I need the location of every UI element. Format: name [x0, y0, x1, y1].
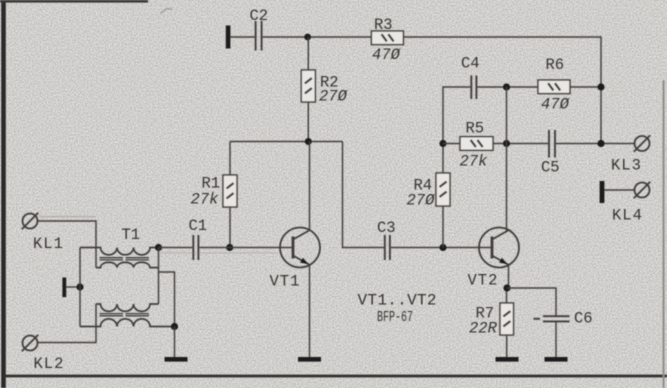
- wire R6 to right bus: [570, 86, 601, 88]
- transformer T1 winding 1a: [80, 248, 159, 255]
- transformer T1 winding 1b: [96, 262, 159, 267]
- node R5/collector: [503, 140, 510, 147]
- svg-text:C6: C6: [574, 310, 593, 328]
- capacitor C1: [193, 235, 198, 260]
- svg-text:R5: R5: [466, 120, 485, 138]
- wire VT2 collector riser: [506, 87, 508, 231]
- svg-text:47Ø: 47Ø: [372, 46, 402, 64]
- svg-text:BFP-67: BFP-67: [377, 309, 413, 326]
- svg-text:KL2: KL2: [34, 355, 65, 373]
- terminal KL2: [22, 335, 38, 351]
- svg-text:R3: R3: [374, 16, 393, 34]
- ground VT1 emitter: [298, 357, 321, 362]
- wire bar to C2: [230, 36, 254, 38]
- wire T1 right to ground branch: [159, 272, 175, 327]
- transformer T1 winding 2a: [96, 304, 159, 311]
- capacitor C6: [534, 316, 570, 321]
- terminal bar KL4 stub: [600, 181, 605, 203]
- node T1 output: [155, 244, 162, 251]
- wire C2 to R3: [263, 36, 371, 38]
- resistor R3: [371, 31, 403, 45]
- wire VT1 emitter to ground: [309, 265, 311, 357]
- terminal KL1: [22, 213, 38, 229]
- svg-text:KL1: KL1: [33, 235, 64, 253]
- node R2 bottom: [305, 138, 312, 145]
- svg-text:R6: R6: [546, 56, 565, 74]
- wire T1 left bus (1a left to 2b left): [79, 248, 81, 327]
- node C2/R2/R3: [304, 34, 311, 41]
- transistor VT2: [479, 228, 519, 268]
- wire chassis bar to node: [66, 286, 80, 288]
- transformer T1 core (top pair): [100, 258, 150, 260]
- wire R3 to top-right corner, down to KL3 node: [403, 37, 601, 144]
- node R1 / base VT1: [226, 244, 233, 251]
- svg-text:VT2: VT2: [468, 272, 499, 290]
- transformer T1 core (bottom pair): [100, 314, 150, 316]
- wire emitter node to C6: [507, 288, 556, 316]
- ground under T1: [165, 327, 188, 362]
- resistor R2 (vertical) with leads: [301, 37, 315, 142]
- resistor R4 (vertical) with leads: [436, 144, 450, 248]
- wire KL1 to T1 winding 1b: [37, 221, 96, 268]
- wire T1 to C1: [159, 247, 193, 249]
- terminal KL3: [634, 135, 650, 151]
- node C4/R6/collector: [503, 83, 510, 90]
- svg-text:27k: 27k: [191, 191, 220, 209]
- svg-text:C2: C2: [250, 7, 269, 25]
- terminal bar (C2 input stub): [226, 26, 231, 49]
- wire T1 right interconnect: [158, 248, 160, 305]
- wire C4 to R6: [477, 86, 538, 88]
- resistor R5 with leads: [443, 137, 548, 151]
- ground C6: [545, 357, 568, 362]
- wire VT1 collector riser: [309, 142, 311, 231]
- wire C5 to KL3: [556, 143, 635, 145]
- node T1 bottom right: [171, 323, 178, 330]
- resistor R7 (vertical): [500, 303, 514, 357]
- svg-text:VT1: VT1: [270, 273, 301, 291]
- capacitor C4: [471, 76, 476, 100]
- wire VT2 emitter down: [507, 265, 509, 303]
- capacitor C2: [256, 21, 262, 51]
- capacitor C5: [549, 130, 555, 158]
- svg-text:C4: C4: [461, 55, 480, 73]
- ground R7: [496, 357, 519, 362]
- svg-text:KL4: KL4: [612, 207, 643, 225]
- svg-text:27Ø: 27Ø: [407, 192, 437, 210]
- wire KL4 bar to KL4: [604, 189, 634, 191]
- node C5/KL3: [597, 140, 604, 147]
- wire collector bus of VT1: [230, 141, 343, 143]
- svg-text:VT1..VT2: VT1..VT2: [358, 292, 437, 310]
- node R6 right: [597, 83, 604, 90]
- svg-text:22R: 22R: [469, 320, 498, 338]
- wire collector bus to C3: [343, 142, 384, 248]
- svg-text:27k: 27k: [460, 153, 489, 171]
- node T1 center tap: [76, 283, 83, 290]
- wire C3 to VT2 base: [391, 247, 492, 249]
- transistor VT1: [280, 228, 320, 268]
- svg-text:KL3: KL3: [611, 157, 642, 175]
- transformer T1 winding 2b: [80, 319, 175, 327]
- wire KL2 to T1 winding 2a: [37, 304, 96, 343]
- svg-text:C1: C1: [189, 217, 208, 235]
- svg-text:27Ø: 27Ø: [319, 88, 349, 106]
- node R4/R5: [439, 140, 446, 147]
- wire R4 top to C4: [443, 87, 470, 144]
- wire C1 to VT1 base: [199, 247, 293, 249]
- resistor R1 (vertical) with leads: [223, 142, 237, 248]
- wire C6 to ground: [555, 321, 557, 357]
- chassis stub bar at T1 center: [62, 278, 66, 298]
- terminal KL4: [634, 182, 650, 198]
- node R4 / base VT2: [439, 244, 446, 251]
- svg-text:47Ø: 47Ø: [541, 96, 571, 114]
- node VT2 emitter: [503, 284, 510, 291]
- svg-text:C5: C5: [541, 159, 560, 177]
- svg-text:T1: T1: [122, 226, 141, 244]
- resistor R6: [538, 80, 570, 94]
- capacitor C3: [385, 235, 390, 260]
- svg-text:C3: C3: [377, 219, 396, 237]
